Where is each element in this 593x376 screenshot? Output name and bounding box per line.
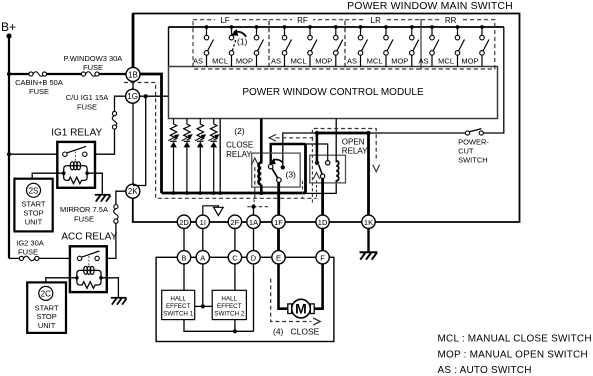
connector 1A <box>247 215 260 228</box>
svg-text:LF: LF <box>220 16 229 25</box>
switch LF AS <box>193 25 214 66</box>
connector E <box>272 251 285 264</box>
switch RF MOP <box>315 25 343 66</box>
coil: close relay <box>259 163 262 185</box>
switch group LR dashed box <box>345 15 421 69</box>
svg-text:CLOSE: CLOSE <box>226 141 253 150</box>
connector D <box>247 251 260 264</box>
connector 2F <box>228 215 241 228</box>
wire: hall link <box>195 305 213 307</box>
node: B+ / IG1 relay branch junction <box>7 152 11 156</box>
switch RF MCL <box>291 25 317 66</box>
switch LF MCL (actuated, annotation 1) <box>212 25 236 66</box>
wire: C to hall switch 2 <box>234 264 236 290</box>
switch RR AS <box>418 25 439 66</box>
wire: B+ vertical feed <box>8 36 10 258</box>
wire: bus left drop to module <box>168 27 170 67</box>
node: hall link / A junction <box>201 304 205 308</box>
switch RR MOP <box>461 25 489 66</box>
connector 2K <box>126 184 140 198</box>
svg-text:HALL: HALL <box>221 295 237 302</box>
svg-text:MCL: MCL <box>438 57 454 66</box>
annotation dashed path around open relay with left arrow and down arrow <box>269 129 380 172</box>
svg-text:POWER-: POWER- <box>458 137 489 146</box>
svg-text:MCL: MCL <box>212 57 228 66</box>
svg-text:A: A <box>200 253 205 262</box>
wire: hall return bus <box>184 320 254 332</box>
svg-text:1G: 1G <box>127 92 138 101</box>
wire: hall 2 return <box>234 320 236 332</box>
connector C <box>228 251 241 264</box>
svg-text:POWER WINDOW CONTROL MODULE: POWER WINDOW CONTROL MODULE <box>242 87 424 98</box>
resistor-diode column 1 <box>168 119 179 195</box>
wire: bus right drop to power-cut switch <box>484 27 504 133</box>
svg-text:UNIT: UNIT <box>25 218 43 227</box>
switch: open relay contacts <box>315 161 330 179</box>
annotation dashed stub right of close relay <box>302 181 304 198</box>
connector B <box>177 251 190 264</box>
svg-text:SWITCH 1: SWITCH 1 <box>163 310 194 317</box>
wire: bold riser to relay feed <box>304 144 307 193</box>
wire: ACC coil right lead to ground <box>101 278 118 298</box>
annotation dashed link to 1A <box>253 200 255 207</box>
svg-text:1K: 1K <box>364 218 373 227</box>
wire: stub to 1A <box>253 207 255 216</box>
svg-text:RELAY: RELAY <box>342 146 368 155</box>
switch LF MOP <box>236 25 264 66</box>
wire: ACC coil left lead to 2C unit <box>46 278 77 283</box>
wire: 2K to MIRROR fuse <box>116 191 126 204</box>
wire: IG1 coil left lead to 2S unit <box>32 173 64 179</box>
svg-text:LR: LR <box>371 16 381 25</box>
svg-text:STOP: STOP <box>23 209 43 218</box>
wire: D to hall return <box>253 264 255 331</box>
svg-text:STOP: STOP <box>36 312 56 321</box>
node: 1G wire / 2K riser junction <box>144 94 148 98</box>
wire: 1G to control module <box>140 95 169 97</box>
svg-text:IG2 30A: IG2 30A <box>16 239 44 248</box>
annotation dashed drop along open relay left side <box>311 138 313 204</box>
svg-text:(2): (2) <box>234 126 245 136</box>
annotation dashed path (4): motor close direction <box>271 279 321 325</box>
switch LR AS <box>347 25 368 66</box>
svg-text:START: START <box>35 303 59 312</box>
svg-text:MIRROR 7.5A: MIRROR 7.5A <box>60 205 108 214</box>
box: hall effect switch 1 <box>162 290 195 319</box>
svg-text:D: D <box>251 253 257 262</box>
svg-text:CUT: CUT <box>458 146 474 155</box>
ground (1K) <box>360 252 378 259</box>
fuse CABIN+B 50A <box>29 72 47 77</box>
relay IG1 coil and resistor <box>64 162 87 184</box>
svg-text:MOP: MOP <box>236 57 253 66</box>
svg-text:2D: 2D <box>179 218 189 227</box>
node: B+ / main wire junction <box>7 72 11 76</box>
unit 2C START STOP UNIT box <box>27 282 66 333</box>
wire: IG1 coil right lead to ground <box>87 173 102 194</box>
box: hall effect switch 2 <box>212 290 246 319</box>
wire: stub 1A to D <box>253 228 255 251</box>
svg-text:MOP: MOP <box>391 57 408 66</box>
switch LR MCL <box>367 25 393 66</box>
wire: stub 2D to B <box>183 228 185 251</box>
svg-text:1D: 1D <box>318 218 328 227</box>
svg-text:2K: 2K <box>128 187 138 196</box>
wire: bold module pin to close relay coil <box>260 119 263 164</box>
relay ACC box <box>70 246 107 292</box>
svg-text:SWITCH: SWITCH <box>458 155 488 164</box>
svg-text:1F: 1F <box>274 218 283 227</box>
relay ACC switch <box>77 251 99 261</box>
switch RR MCL <box>438 25 464 66</box>
connector 1K <box>362 215 375 228</box>
resistor-diode column 4 <box>208 119 219 195</box>
svg-text:SWITCH 2: SWITCH 2 <box>214 310 245 317</box>
wire: bold bottom bus <box>162 192 306 195</box>
wire: mirror fuse to ACC relay switch <box>107 223 116 258</box>
svg-text:(3): (3) <box>286 170 297 180</box>
wire: bold E to motor <box>279 264 289 309</box>
connector 1D <box>316 215 329 228</box>
wire: stub 2F to C <box>234 228 236 251</box>
svg-text:AS: AS <box>193 57 203 66</box>
connector 1B <box>126 67 140 81</box>
svg-text:POWER WINDOW MAIN SWITCH: POWER WINDOW MAIN SWITCH <box>347 0 513 12</box>
relay CLOSE box <box>252 153 301 187</box>
annotation (1) curved arrow at LF MCL <box>231 29 248 47</box>
svg-text:B+: B+ <box>1 20 16 34</box>
svg-text:RELAY: RELAY <box>226 150 252 159</box>
connector 1I <box>196 215 209 228</box>
wire: enclosure left edge 1B-1G-2K column <box>132 74 134 191</box>
wire: bold close coil to bus <box>260 185 263 193</box>
switch RF AS <box>271 25 292 66</box>
motor M <box>288 299 314 318</box>
svg-text:AS : AUTO SWITCH: AS : AUTO SWITCH <box>438 365 532 376</box>
switch: power-cut <box>465 129 483 135</box>
svg-text:M: M <box>295 301 307 317</box>
svg-text:1B: 1B <box>128 70 138 79</box>
wire: battery feed to 1B through fuses <box>9 73 126 75</box>
svg-text:2C: 2C <box>41 289 51 298</box>
svg-text:AS: AS <box>271 57 281 66</box>
svg-text:B: B <box>181 253 186 262</box>
node: close coil / bus junction <box>259 191 263 195</box>
wire: A to hall switches <box>202 264 204 306</box>
wire: bold segment y=133 to 1K drop <box>317 132 369 135</box>
svg-text:MOP : MANUAL OPEN SWITCH: MOP : MANUAL OPEN SWITCH <box>438 349 588 360</box>
svg-text:FUSE: FUSE <box>29 87 49 96</box>
wire: bold 1K to ground <box>367 229 369 252</box>
svg-text:MCL: MCL <box>367 57 383 66</box>
annotation arrow from 1I <box>203 206 223 216</box>
resistor-diode column 3 <box>195 119 206 195</box>
relay ACC actuator dashed link <box>88 256 90 266</box>
switch group RR dashed box <box>421 15 495 69</box>
resistor-diode column 2 <box>182 119 193 195</box>
unit 2S START STOP UNIT box <box>14 179 52 232</box>
box: window motor assembly <box>156 257 334 341</box>
wire: bold open relay common drop <box>316 133 319 162</box>
svg-text:MOP: MOP <box>315 57 332 66</box>
wire: bold riser 1B to frame top <box>132 14 135 75</box>
wire: close relay NO contact riser net (y=133) <box>283 133 317 165</box>
annotation (3) curved arrow <box>274 160 283 164</box>
svg-text:MCL : MANUAL CLOSE SWITCH: MCL : MANUAL CLOSE SWITCH <box>438 334 592 345</box>
wire: bold 1K drop <box>367 133 370 215</box>
wire: open relay NO contact riser <box>306 144 328 161</box>
switch group LF dashed box <box>193 15 269 69</box>
svg-text:C/U IG1 15A: C/U IG1 15A <box>66 93 109 102</box>
svg-text:1I: 1I <box>200 218 206 227</box>
svg-text:IG1 RELAY: IG1 RELAY <box>51 128 102 139</box>
node: open relay common junction <box>315 131 319 135</box>
svg-text:FUSE: FUSE <box>83 63 103 72</box>
svg-text:UNIT: UNIT <box>38 321 56 330</box>
relay ACC coil and resistor <box>77 266 101 288</box>
svg-text:CABIN+B 50A: CABIN+B 50A <box>15 78 63 87</box>
svg-text:CLOSE: CLOSE <box>291 327 320 337</box>
svg-text:2F: 2F <box>231 218 240 227</box>
svg-text:RF: RF <box>297 16 308 25</box>
svg-text:2S: 2S <box>29 186 39 195</box>
switch group RF dashed box <box>269 15 345 69</box>
svg-text:E: E <box>276 253 281 262</box>
ground (ACC relay) <box>111 298 127 305</box>
relay IG1 switch <box>63 146 87 156</box>
relay OPEN box <box>310 155 346 183</box>
svg-text:P.WINDOW3 30A: P.WINDOW3 30A <box>64 54 123 63</box>
svg-text:START: START <box>22 200 46 209</box>
svg-text:1A: 1A <box>249 218 258 227</box>
annotation dashed path (2): from 1B feed to close relay coil <box>124 83 317 199</box>
relay IG1 actuator dashed link <box>74 152 76 162</box>
ground (IG1 relay) <box>95 195 111 202</box>
connector 1G <box>126 89 140 103</box>
svg-text:AS: AS <box>347 57 357 66</box>
node: 1K drop junction <box>366 131 370 135</box>
wire: y=133 to power-cut switch <box>369 132 466 134</box>
svg-text:OPEN: OPEN <box>342 137 365 146</box>
connector A <box>196 251 209 264</box>
relay IG1 box <box>57 142 95 188</box>
wire: module pin to open relay coil <box>335 119 337 163</box>
svg-text:EFFECT: EFFECT <box>217 303 242 310</box>
wire: bold stub 1F to E <box>277 228 280 251</box>
node: 1A feed dot <box>251 205 255 209</box>
wire: switch bus <box>169 26 504 28</box>
svg-text:EFFECT: EFFECT <box>166 303 191 310</box>
switch LR MOP <box>391 25 419 66</box>
annotation dashed arrow up to close relay <box>251 158 258 198</box>
wire: bold F to motor <box>314 264 322 309</box>
wire: bold feed 1B to bottom bus <box>140 74 162 193</box>
annotation dashed arrow inside open relay <box>313 173 319 200</box>
connector F <box>316 251 329 264</box>
svg-text:FUSE: FUSE <box>18 248 38 257</box>
module POWER WINDOW CONTROL MODULE <box>169 67 498 119</box>
svg-text:MCL: MCL <box>291 57 307 66</box>
fuse MIRROR 7.5A <box>114 205 119 224</box>
svg-text:C: C <box>232 253 238 262</box>
wire: bold open relay to 1D <box>321 178 324 215</box>
wire: stub 1I to A <box>202 228 204 251</box>
svg-text:MOP: MOP <box>461 57 478 66</box>
fuse C/U IG1 15A <box>112 111 117 129</box>
fuse IG2 30A <box>19 256 39 261</box>
svg-text:(4): (4) <box>273 327 284 337</box>
wire: module pin to bus (x=220) <box>219 119 221 194</box>
wire: B+ branch to IG1 relay <box>9 153 57 155</box>
wire: 2K riser to 1G wire <box>133 96 146 185</box>
svg-text:ACC RELAY: ACC RELAY <box>61 232 117 243</box>
coil: open relay <box>336 161 339 181</box>
connector 1F <box>272 215 285 228</box>
fuse P.WINDOW3 30A <box>81 72 99 77</box>
annotation dashed at 1A feed <box>247 206 270 208</box>
wire: main switch enclosure frame (top / right / bottom connector row) <box>133 14 520 223</box>
wire: bold stub 1D to F <box>321 228 324 251</box>
wire: bold relay feed to close relay pivot <box>271 144 306 165</box>
svg-text:RR: RR <box>445 16 457 25</box>
wire: C/U IG1 fuse branch from 1G <box>115 96 126 111</box>
wire: open relay coil return to bus <box>306 180 337 193</box>
wire: bold close relay to 1F <box>277 182 280 215</box>
wire: B to hall switch 1 <box>183 264 185 290</box>
wire: IG2 fuse to ACC relay <box>39 257 70 259</box>
svg-text:(1): (1) <box>237 37 248 47</box>
wire: fuse down to IG1 relay switch <box>95 129 115 154</box>
svg-text:HALL: HALL <box>170 295 186 302</box>
node: hall return junction <box>233 329 237 333</box>
svg-text:FUSE: FUSE <box>77 103 97 112</box>
svg-text:AS: AS <box>418 57 428 66</box>
connector 2D <box>177 215 190 228</box>
wire: B+ to IG2 fuse <box>9 257 19 259</box>
svg-text:F: F <box>320 253 325 262</box>
switch: close relay contacts <box>268 164 285 182</box>
svg-text:FUSE: FUSE <box>74 215 94 224</box>
